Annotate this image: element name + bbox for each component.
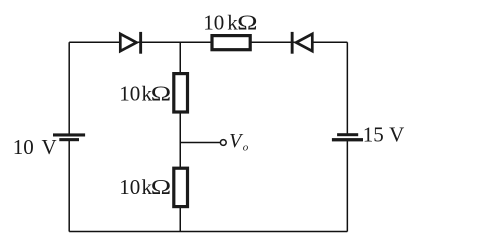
diode D2 triangle	[296, 34, 312, 51]
battery V1 short plate	[59, 138, 79, 141]
resistor R3 box (middle lower vertical)	[174, 168, 188, 206]
label V2 value 15 V	[363, 122, 404, 146]
svg-text:Ω: Ω	[151, 175, 171, 199]
diode D2 cathode bar	[291, 32, 294, 54]
diode D1 cathode bar	[139, 32, 142, 54]
svg-text:10: 10	[119, 175, 140, 199]
svg-text:10: 10	[119, 82, 140, 106]
battery V2 long plate	[332, 138, 363, 141]
battery V1 long plate (10 V, positive)	[53, 133, 85, 136]
label V1 value 10 V	[13, 135, 57, 159]
svg-text:15: 15	[363, 122, 384, 146]
svg-text:V: V	[42, 135, 57, 159]
svg-text:10: 10	[13, 135, 34, 159]
resistor R1 box (top horizontal)	[212, 36, 250, 50]
terminal Vo (open circle)	[220, 140, 226, 146]
svg-text:V: V	[389, 122, 404, 146]
svg-text:10: 10	[203, 10, 224, 34]
svg-text:o: o	[243, 142, 249, 154]
wire left branch lower	[68, 141, 70, 232]
wire right branch upper	[346, 42, 348, 134]
svg-text:Ω: Ω	[151, 82, 171, 106]
label R2 value 10 kOhm (middle upper)	[119, 82, 171, 106]
label R1 value 10 kOhm (top)	[203, 10, 257, 34]
wire left branch upper	[68, 42, 70, 134]
wire right branch lower	[346, 141, 348, 232]
label R3 value 10 kOhm (middle lower)	[119, 175, 171, 199]
wire bottom rail	[69, 231, 347, 233]
wire output stub	[180, 142, 220, 144]
wire middle branch	[179, 42, 181, 231]
battery V2 short plate (15 V)	[337, 133, 358, 136]
wire top rail	[69, 41, 347, 43]
resistor R2 box (middle upper vertical)	[174, 74, 188, 112]
svg-text:Ω: Ω	[237, 10, 257, 34]
diode D1 triangle	[120, 34, 136, 51]
